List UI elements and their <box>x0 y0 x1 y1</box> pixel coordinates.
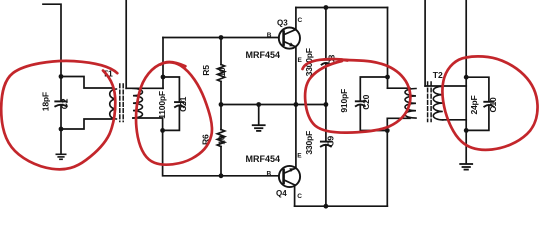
capacitor C2 <box>55 77 66 130</box>
node: C10 top junction <box>464 75 469 80</box>
svg-text:C21: C21 <box>178 96 188 111</box>
capacitor C10 <box>466 77 493 130</box>
wire: input lead top-left <box>43 4 61 76</box>
wire: T1 secondary bottom lead <box>133 118 163 130</box>
capacitor C20 <box>356 77 388 131</box>
capacitor C9 <box>321 142 331 147</box>
annotation: red circle around C20 with tail through C8 <box>303 59 348 69</box>
node: C20 bottom junction <box>385 128 390 133</box>
node: C2 bottom junction <box>59 127 64 132</box>
ground (left, below C2) <box>56 154 65 159</box>
wire: C10 bottom junction to ground <box>465 130 467 163</box>
wire: top rail to Q3 base <box>163 37 279 39</box>
node: C10 bottom junction <box>464 128 469 133</box>
node: C2 top junction <box>59 74 64 79</box>
wire: T1 secondary top lead <box>126 87 163 89</box>
wire: output vertical line <box>465 0 467 130</box>
transformer T2 primary winding <box>405 89 416 119</box>
transformer T1 primary winding <box>110 89 117 119</box>
transistor Q4 <box>279 166 300 206</box>
svg-text:E: E <box>298 57 303 64</box>
transformer T2 secondary winding <box>433 86 443 120</box>
svg-text:1100pF: 1100pF <box>157 91 167 119</box>
node: mid rail to main vertical junction <box>324 102 329 107</box>
svg-text:10: 10 <box>217 135 227 145</box>
svg-text:18pF: 18pF <box>40 92 50 111</box>
transformer T2 core <box>428 82 432 122</box>
wire: T1 secondary top line to top edge <box>125 0 127 88</box>
annotation: red pen tail at top of C21 circle <box>161 62 186 66</box>
svg-text:C20: C20 <box>361 94 371 109</box>
svg-text:910pF: 910pF <box>339 89 349 113</box>
annotation: red circle around C21 and R6 <box>136 62 212 164</box>
wire: main vertical middle segment <box>325 64 327 141</box>
svg-text:B: B <box>267 170 272 177</box>
wire: bottom rail <box>295 205 388 207</box>
svg-text:C: C <box>298 17 303 24</box>
svg-text:Q4: Q4 <box>276 189 287 198</box>
node: R5 top junction <box>219 35 224 40</box>
wire: C2 top to T1 primary top <box>61 77 113 89</box>
node: base network top junction <box>161 75 166 80</box>
wire: T2 secondary top line to top edge <box>424 0 426 86</box>
ground (right, below C10) <box>460 164 472 170</box>
node: C21 bottom junction <box>160 128 165 133</box>
transformer T1 secondary winding <box>133 88 142 118</box>
wire: T2 primary bottom lead <box>387 118 410 130</box>
transformer T1 core <box>120 84 123 122</box>
svg-text:MRF454: MRF454 <box>246 154 281 164</box>
wire: C2 bottom to T1 primary bottom <box>61 119 113 129</box>
wire: mid-rail ground stub <box>258 105 260 125</box>
svg-text:330pF: 330pF <box>304 131 314 155</box>
wire: C21 bottom junction to Q4 base line <box>163 130 279 175</box>
resistor R5 <box>217 38 224 105</box>
svg-text:10: 10 <box>217 67 227 77</box>
wire: top rail right segment <box>296 7 388 9</box>
wire: right column vertical from top rail <box>387 8 389 89</box>
svg-text:C9: C9 <box>326 136 336 147</box>
svg-text:C2: C2 <box>60 98 70 109</box>
wire: main vertical upper segment <box>325 8 327 60</box>
svg-text:E: E <box>297 153 302 160</box>
node: R6 bottom junction <box>219 173 224 178</box>
svg-text:T2: T2 <box>433 70 443 80</box>
annotation: red circle around C10 and T2 secondary <box>442 56 537 149</box>
node: C20 top junction <box>385 75 390 80</box>
wire: riser to top rail <box>162 38 164 78</box>
wire: T2 primary top lead <box>388 87 411 89</box>
svg-text:R5: R5 <box>201 65 211 76</box>
wire: C2 bottom to ground <box>60 129 62 154</box>
wire: T2 secondary bottom lead <box>443 119 466 121</box>
node: bottom rail junction <box>324 204 329 209</box>
svg-text:C: C <box>297 193 302 200</box>
wire: main vertical lower segment <box>325 146 327 206</box>
resistor R6 <box>217 105 224 176</box>
wire: T2 secondary top lead <box>425 85 466 87</box>
annotation: red circle around C2 <box>1 61 117 169</box>
node: mid-rail ground junction <box>256 102 261 107</box>
svg-text:Q3: Q3 <box>277 18 288 27</box>
transistor Q3 <box>279 8 300 169</box>
capacitor C8 <box>322 60 331 65</box>
svg-text:C10: C10 <box>488 97 498 112</box>
wire: T1 secondary top lead riser <box>162 77 164 88</box>
node: top rail junction <box>324 5 329 10</box>
node: emitter line mid junction <box>294 102 299 107</box>
ground (center, below mid rail) <box>253 125 265 131</box>
capacitor C21 <box>163 77 184 130</box>
svg-text:B: B <box>267 32 272 39</box>
node: R5/R6 mid junction <box>219 102 224 107</box>
wire: C20 bottom junction to bottom rail <box>386 131 388 207</box>
svg-text:24pF: 24pF <box>469 95 479 114</box>
wire: mid rail (emitter/ground rail) <box>221 104 326 106</box>
svg-text:MRF454: MRF454 <box>246 50 281 60</box>
